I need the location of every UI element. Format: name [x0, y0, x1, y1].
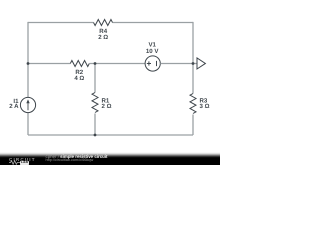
- label I1 value 2 A: [9, 103, 19, 110]
- resistor R3: [190, 94, 196, 114]
- node D junction dot: [94, 134, 97, 137]
- wire middle rail right segment: [160, 63, 193, 65]
- svg-text:10 V: 10 V: [146, 48, 159, 55]
- label R2 value 4 ohm: [74, 75, 84, 82]
- svg-text:2 Ω: 2 Ω: [102, 103, 112, 110]
- footer title line: [46, 154, 108, 159]
- wire middle vertical lower: [94, 114, 96, 136]
- node C junction dot: [192, 62, 195, 65]
- wire middle rail left segment: [28, 63, 70, 65]
- label R2: [75, 69, 83, 76]
- wire stub to output flag: [193, 63, 197, 65]
- label R1 value 2 ohm: [102, 103, 112, 110]
- svg-text:2 A: 2 A: [9, 103, 19, 110]
- wire bottom rail: [28, 134, 193, 136]
- wire top rail right segment: [113, 22, 194, 24]
- CircuitLab logo LAB box: [20, 161, 29, 164]
- svg-text:2 Ω: 2 Ω: [98, 34, 108, 41]
- label R3: [200, 98, 208, 105]
- node A junction dot: [27, 62, 30, 65]
- svg-text:4 Ω: 4 Ω: [74, 75, 84, 82]
- wire middle rail center segment: [90, 63, 146, 65]
- wire right vertical upper: [192, 22, 194, 94]
- CircuitLab logo wordmark: [9, 157, 36, 162]
- wire middle vertical upper: [94, 64, 96, 93]
- wire left vertical lower: [27, 113, 29, 135]
- label R1: [102, 98, 110, 105]
- node flag arrow: [197, 58, 205, 69]
- current source I1: [20, 97, 35, 112]
- resistor R2: [70, 61, 89, 67]
- label V1: [148, 42, 156, 49]
- voltage source V1: [145, 56, 160, 71]
- label V1 value 10 V: [146, 48, 159, 55]
- svg-text:3 Ω: 3 Ω: [200, 103, 210, 110]
- node B junction dot: [94, 62, 97, 65]
- wire left vertical upper: [27, 22, 29, 98]
- resistor R1: [92, 93, 98, 113]
- label R3 value 3 ohm: [200, 103, 210, 110]
- label R4 value 2 ohm: [98, 34, 108, 41]
- footer bar: [0, 152, 220, 165]
- CircuitLab logo resistor squiggle: [9, 160, 20, 165]
- label I1: [13, 98, 19, 105]
- wire right vertical lower: [192, 115, 194, 136]
- footer url line: [46, 158, 94, 162]
- label R4: [99, 28, 107, 35]
- resistor R4: [94, 20, 113, 26]
- wire top rail left segment: [28, 22, 94, 24]
